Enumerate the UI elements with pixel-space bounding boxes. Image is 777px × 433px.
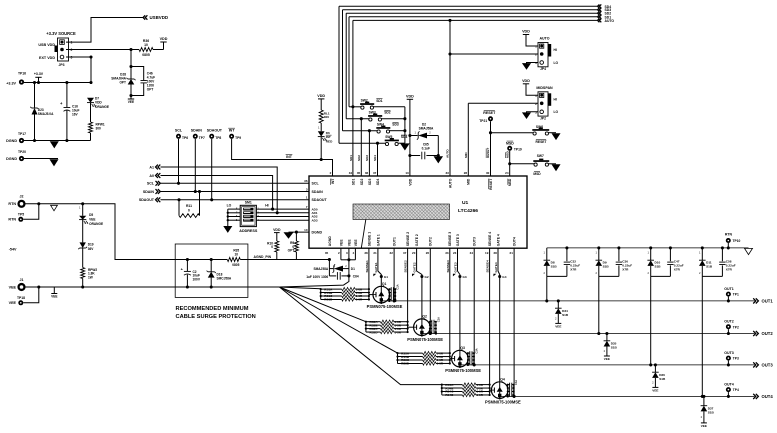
- capacitor C2D: [430, 331, 432, 333]
- svg-text:TP4: TP4: [733, 388, 739, 392]
- capacitor C2C: [430, 328, 432, 330]
- svg-text:TP10: TP10: [733, 239, 741, 243]
- diode D6 INT RED: [320, 123, 322, 131]
- node SD4: [598, 4, 602, 8]
- capacitor C2B: [430, 324, 432, 326]
- svg-text:TP3: TP3: [733, 357, 739, 361]
- svg-text:INT: INT: [286, 155, 293, 159]
- wire AUTO jumper to pin: [450, 53, 538, 55]
- svg-text:AGND: AGND: [328, 236, 332, 247]
- svg-text:SD2: SD2: [357, 155, 361, 161]
- wire GATE4 net: [498, 248, 500, 382]
- node OUT3: [753, 362, 758, 367]
- svg-text:OUT3: OUT3: [724, 351, 734, 355]
- wire source to OUT4 row: [499, 397, 501, 399]
- svg-text:VEE: VEE: [128, 100, 134, 104]
- capacitor C2: [186, 258, 189, 261]
- svg-text:EXT VDD: EXT VDD: [39, 56, 55, 60]
- svg-text:SW3: SW3: [369, 110, 376, 114]
- diode D1 SMAJ58A: [329, 268, 333, 270]
- wire source to OUT2 row: [421, 334, 423, 336]
- ground (TP20): [50, 160, 58, 166]
- chassis arrow (J2): [51, 205, 58, 211]
- capacitor C2A: [430, 321, 432, 323]
- svg-text:37: 37: [373, 171, 377, 175]
- svg-text:AUTO: AUTO: [446, 149, 450, 158]
- switch SW2 SD1: [349, 106, 361, 108]
- svg-text:RS4D: RS4D: [445, 393, 454, 397]
- wire OUT3 row: [460, 364, 755, 366]
- svg-text:OUT4: OUT4: [513, 237, 517, 246]
- wire VEE pins tie: [340, 248, 342, 260]
- svg-text:VDD: VDD: [406, 95, 414, 99]
- svg-text:VDD: VDD: [273, 228, 281, 232]
- svg-text:C1A: C1A: [396, 284, 400, 289]
- wire bus SD2: [346, 12, 597, 14]
- wire bus SD1: [349, 16, 597, 18]
- svg-text:0: 0: [271, 245, 273, 249]
- capacitor C4B: [508, 387, 510, 389]
- wire SDAIN: [161, 191, 310, 193]
- svg-text:MIDSPAN: MIDSPAN: [536, 86, 553, 90]
- svg-text:C4A: C4A: [514, 380, 518, 385]
- diode D34 S1B: [557, 299, 560, 302]
- svg-text:36: 36: [304, 179, 308, 183]
- svg-text:AUTO: AUTO: [448, 178, 452, 188]
- svg-text:SENSE4: SENSE4: [486, 260, 490, 272]
- svg-text:SMAJ58A: SMAJ58A: [313, 267, 328, 271]
- svg-text:S1B: S1B: [708, 410, 715, 414]
- svg-text:J2: J2: [20, 194, 24, 198]
- svg-text:G1: G1: [384, 275, 388, 279]
- svg-text:+3.3V: +3.3V: [6, 81, 16, 85]
- svg-text:SDAOUT: SDAOUT: [139, 198, 155, 202]
- svg-text:10: 10: [304, 228, 308, 232]
- wire SENSE3 to IC: [449, 248, 451, 363]
- capacitor C64: [329, 275, 336, 277]
- svg-text:1W: 1W: [88, 275, 93, 279]
- svg-text:OPT: OPT: [288, 248, 295, 252]
- svg-text:0.1uF: 0.1uF: [422, 147, 430, 151]
- svg-text:RTN: RTN: [8, 202, 16, 206]
- svg-text:TP18: TP18: [17, 296, 25, 300]
- wire cap bus port4: [507, 385, 509, 397]
- surge protection box: [175, 244, 248, 297]
- svg-text:SENSE 1: SENSE 1: [367, 232, 371, 246]
- svg-text:38: 38: [364, 251, 368, 255]
- diode D18 SMCJ58A: [210, 258, 213, 261]
- svg-text:X7R: X7R: [674, 268, 681, 272]
- capacitor C1B: [389, 292, 391, 294]
- wire bus SD4: [339, 5, 597, 7]
- transistor Q4 PSMN075-100MSE: [491, 382, 508, 399]
- svg-text:+3.3V: +3.3V: [34, 72, 44, 76]
- connector JP3: [58, 38, 69, 61]
- wire drain stub: [408, 326, 414, 328]
- capacitor C3C: [468, 359, 470, 361]
- wire D9 to OUT2 row: [598, 276, 600, 333]
- switch SW4 SD3: [343, 130, 378, 132]
- svg-text:1uF 100V 1306: 1uF 100V 1306: [306, 275, 328, 279]
- resistor RPW2: [81, 268, 85, 279]
- svg-text:SD4: SD4: [373, 155, 377, 161]
- wire VEE fan to port1: [279, 287, 320, 289]
- svg-text:-54V: -54V: [9, 248, 17, 252]
- svg-text:SD3: SD3: [392, 123, 399, 127]
- svg-text:AD3: AD3: [312, 218, 318, 222]
- svg-text:USB VDD: USB VDD: [38, 43, 55, 47]
- svg-text:OUT3: OUT3: [473, 237, 477, 246]
- ground (C65): [434, 157, 442, 163]
- svg-text:S1B: S1B: [603, 264, 610, 268]
- svg-text:AGND_PIN: AGND_PIN: [254, 255, 272, 259]
- wire SD4 drop to IC: [376, 142, 379, 145]
- power VEE symbol (rail): [53, 287, 55, 294]
- svg-text:TP21: TP21: [479, 119, 487, 123]
- svg-text:RS3D: RS3D: [401, 362, 410, 366]
- wire JP3 pin3 down: [66, 57, 91, 83]
- svg-text:Q1: Q1: [382, 282, 387, 286]
- svg-text:VEE: VEE: [354, 239, 358, 247]
- node OUT2: [753, 331, 758, 336]
- svg-text:33: 33: [445, 171, 449, 175]
- svg-text:TP19: TP19: [514, 148, 522, 152]
- wire AUTO pin drop: [449, 20, 451, 176]
- resistor RS1C 0.25: [321, 295, 342, 297]
- svg-text:AUTO: AUTO: [605, 19, 615, 23]
- wire VDD to IC: [409, 99, 411, 176]
- svg-text:35: 35: [357, 171, 361, 175]
- diode D28 SMAJ64A OPT: [130, 50, 132, 80]
- svg-text:OUT2: OUT2: [429, 237, 433, 246]
- wire OUT4 row: [500, 395, 755, 397]
- svg-text:+3.3V SOURCE: +3.3V SOURCE: [46, 31, 76, 36]
- wire A0: [161, 176, 273, 210]
- svg-text:MID: MID: [467, 178, 471, 185]
- wire drain stub: [490, 389, 492, 391]
- wire SD3 drop to IC: [368, 129, 371, 132]
- wire A1: [161, 167, 278, 213]
- svg-text:MSD: MSD: [508, 178, 512, 186]
- wire JP3 pin2 to R36: [66, 49, 139, 51]
- svg-text:VDD: VDD: [160, 37, 168, 41]
- wire cap bus port2: [429, 322, 431, 334]
- wire OUT2 pin to row: [429, 248, 431, 333]
- svg-text:SW5: SW5: [385, 135, 392, 139]
- diode D36 S1B: [654, 363, 657, 366]
- resistor RS4D 0.25: [442, 394, 463, 396]
- svg-text:16V: 16V: [72, 112, 79, 116]
- svg-text:OUT4: OUT4: [724, 383, 734, 387]
- power VEE (D28): [128, 98, 134, 100]
- node SD1: [598, 15, 602, 19]
- svg-text:HI: HI: [554, 48, 557, 52]
- capacitor C3D: [468, 362, 470, 364]
- svg-text:TP8: TP8: [215, 136, 221, 140]
- switch SW7 MSD: [510, 163, 534, 165]
- svg-text:SD4: SD4: [401, 135, 408, 139]
- svg-text:Q3: Q3: [460, 346, 465, 350]
- capacitor C58 0.22uF: [721, 246, 724, 249]
- svg-text:U1: U1: [462, 200, 469, 206]
- testpoint TP16: [19, 79, 24, 84]
- power VEE (D37): [701, 422, 707, 424]
- svg-text:RESET: RESET: [483, 111, 496, 115]
- svg-text:10: 10: [235, 252, 239, 256]
- wire MIDSPAN jumper to MID pin: [468, 102, 538, 104]
- svg-text:SM1: SM1: [245, 201, 252, 205]
- svg-text:SW6: SW6: [536, 125, 543, 129]
- svg-text:0805: 0805: [232, 263, 239, 267]
- wire AUTO drop to IC: [352, 20, 354, 176]
- svg-text:TP5: TP5: [18, 212, 24, 216]
- svg-text:23: 23: [453, 251, 457, 255]
- node SD3: [598, 8, 602, 12]
- svg-text:PSMN075-100MSE: PSMN075-100MSE: [367, 304, 403, 309]
- power VEE (D36): [652, 386, 658, 388]
- svg-text:SDAIN: SDAIN: [191, 129, 203, 133]
- svg-text:1-0R: 1-0R: [394, 330, 401, 334]
- svg-text:SW4: SW4: [377, 122, 384, 126]
- resistor RPW1 300: [89, 122, 93, 133]
- wire cap bus port1: [388, 289, 390, 301]
- svg-text:LO: LO: [554, 110, 559, 114]
- svg-text:SD3: SD3: [368, 178, 372, 185]
- wire OUT4 pin to row: [513, 248, 515, 396]
- svg-text:PSMN075-100MSE: PSMN075-100MSE: [407, 337, 443, 342]
- svg-text:OUT1: OUT1: [762, 299, 774, 304]
- capacitor C36 0.22uF: [617, 246, 620, 249]
- svg-text:TP1: TP1: [733, 293, 739, 297]
- svg-text:Q4: Q4: [500, 377, 505, 381]
- svg-text:SDAOUT: SDAOUT: [312, 198, 328, 202]
- svg-text:SD1: SD1: [352, 178, 356, 185]
- svg-text:SD2: SD2: [360, 178, 364, 185]
- resistor RS2C 0.25: [366, 328, 381, 330]
- svg-text:RED: RED: [326, 139, 333, 143]
- wire SD2 drop to IC: [360, 117, 363, 120]
- svg-text:GATE 1: GATE 1: [376, 234, 380, 246]
- svg-text:G3: G3: [463, 275, 467, 279]
- svg-text:RTN: RTN: [8, 218, 16, 222]
- capacitor C47 0.22uF: [669, 246, 672, 249]
- capacitor C1D: [389, 298, 391, 300]
- svg-text:RS1D: RS1D: [324, 298, 333, 302]
- diode D7 VDD ORANGE: [87, 98, 94, 103]
- svg-text:RTN: RTN: [725, 232, 733, 236]
- svg-text:SMAJ58A: SMAJ58A: [419, 127, 434, 131]
- svg-text:C3A: C3A: [474, 348, 478, 353]
- svg-text:A1: A1: [149, 165, 154, 169]
- wire JP2 pin3 to ground: [527, 112, 539, 113]
- connector JP4 AUTO: [523, 34, 529, 36]
- svg-text:36V: 36V: [88, 247, 95, 251]
- svg-text:DGND: DGND: [312, 230, 323, 234]
- svg-text:SW7: SW7: [537, 154, 544, 158]
- capacitor C1A: [389, 288, 391, 290]
- wire SD2 drop: [345, 13, 347, 119]
- resistor RS4B 0.25: [442, 387, 463, 389]
- svg-text:TP17: TP17: [18, 132, 26, 136]
- power VEE (D35): [604, 355, 610, 357]
- diode D35 S1B: [605, 332, 608, 335]
- svg-text:300: 300: [324, 115, 329, 119]
- node USBVDD: [143, 15, 147, 19]
- wire bus SD3: [343, 9, 598, 11]
- svg-text:SENSE 4: SENSE 4: [488, 232, 492, 246]
- testpoint TP17: [19, 138, 24, 143]
- svg-text:INT: INT: [229, 129, 236, 133]
- svg-text:34: 34: [470, 251, 474, 255]
- svg-text:OPT: OPT: [119, 81, 126, 85]
- svg-text:DGND: DGND: [6, 157, 17, 161]
- svg-text:MSD: MSD: [505, 150, 509, 158]
- op-amp U1 LTC4266 body: [309, 176, 527, 248]
- wire VEE fan to port4: [279, 287, 441, 385]
- svg-text:SMCJ58A: SMCJ58A: [217, 277, 232, 281]
- capacitor C65: [410, 155, 420, 157]
- svg-text:JP3: JP3: [59, 63, 65, 67]
- wire VEE fan to port3: [279, 287, 397, 353]
- svg-text:SDAOUT: SDAOUT: [207, 129, 223, 133]
- svg-text:TP7: TP7: [199, 136, 205, 140]
- svg-text:SCL: SCL: [175, 129, 183, 133]
- resistor RS4A 0.25: [442, 384, 463, 386]
- wire OUT1 row: [381, 300, 754, 302]
- svg-text:J1: J1: [20, 278, 24, 282]
- wire SENSE1 to IC: [368, 248, 370, 299]
- svg-text:21: 21: [510, 251, 514, 255]
- svg-text:OUT2: OUT2: [762, 331, 774, 336]
- resistor RS3B 0.25: [398, 356, 423, 358]
- wire switch common: [404, 107, 406, 143]
- svg-text:VEE: VEE: [51, 295, 57, 299]
- svg-text:DGND: DGND: [6, 139, 17, 143]
- resistor R11: [178, 200, 180, 216]
- svg-text:VEE: VEE: [339, 239, 343, 247]
- wire SDAOUT: [161, 199, 310, 201]
- wire drain stub: [369, 294, 373, 296]
- resistor RS2A 0.25: [366, 321, 381, 323]
- wire AGND to D1: [328, 258, 331, 261]
- wire SD4 drop: [338, 6, 340, 143]
- resistor RS1A 0.25: [321, 288, 342, 290]
- svg-text:RESET: RESET: [486, 148, 490, 158]
- wire port2 left bus: [365, 322, 367, 332]
- svg-text:ADDRESS: ADDRESS: [239, 229, 258, 233]
- svg-text:OUT3: OUT3: [762, 363, 774, 368]
- resistor RS3A 0.25: [398, 352, 423, 354]
- svg-text:ORANGE: ORANGE: [89, 222, 103, 226]
- svg-text:13: 13: [405, 171, 409, 175]
- wire SD1 drop: [348, 17, 350, 107]
- connector JP2 MIDSPAN: [523, 83, 529, 85]
- wire GATE1 net: [378, 248, 381, 286]
- svg-text:10: 10: [144, 43, 148, 47]
- wire VEE fan to D1/C64 node: [279, 276, 349, 287]
- svg-text:SD1: SD1: [349, 155, 353, 161]
- ground (DGND pin): [284, 233, 292, 239]
- svg-text:D5: D5: [89, 213, 93, 217]
- svg-text:GATE4: GATE4: [494, 262, 498, 272]
- wire port1 left bus: [320, 289, 322, 299]
- node OUT4: [753, 394, 758, 399]
- svg-text:SW2: SW2: [361, 99, 368, 103]
- svg-text:X7R: X7R: [570, 268, 577, 272]
- svg-text:VEE: VEE: [89, 218, 95, 222]
- diode D37 S1B: [702, 395, 705, 398]
- svg-text:RECOMMENDED MINIMUM: RECOMMENDED MINIMUM: [176, 306, 249, 312]
- svg-text:S1B: S1B: [655, 264, 662, 268]
- diode D19 36V: [80, 242, 86, 248]
- svg-text:TP9: TP9: [235, 136, 241, 140]
- svg-text:VEE: VEE: [555, 325, 561, 329]
- svg-text:TP20: TP20: [18, 150, 26, 154]
- svg-text:SENSE1: SENSE1: [365, 260, 369, 272]
- diode D8 S1B: [546, 248, 548, 260]
- diode D10 S1B: [649, 246, 652, 249]
- svg-text:0805: 0805: [142, 53, 150, 57]
- wire port4 left bus: [441, 385, 443, 395]
- svg-text:G2: G2: [425, 275, 429, 279]
- wire bus AUTO: [353, 19, 597, 21]
- diode D9 S1B: [597, 246, 600, 249]
- svg-text:SD2: SD2: [384, 111, 391, 115]
- capacitor C16: [65, 81, 68, 84]
- svg-text:VEE: VEE: [347, 239, 351, 247]
- resistor R9 OPT: [295, 232, 297, 241]
- svg-text:RESET: RESET: [536, 140, 547, 144]
- resistor R35: [227, 258, 240, 262]
- svg-text:RESET: RESET: [489, 178, 493, 190]
- svg-text:OUT2: OUT2: [724, 320, 734, 324]
- wire SENSE2 to IC: [407, 248, 409, 332]
- svg-text:28: 28: [493, 251, 497, 255]
- capacitor C4D: [508, 394, 510, 396]
- svg-text:34: 34: [349, 171, 353, 175]
- diode D23 SMAJ5.0A: [33, 81, 36, 84]
- svg-text:USBVDD: USBVDD: [150, 15, 169, 20]
- wire cap bus port3: [467, 353, 469, 365]
- svg-text:SENSE2: SENSE2: [404, 260, 408, 272]
- svg-text:ORANGE: ORANGE: [95, 105, 109, 109]
- svg-text:OUT1: OUT1: [724, 287, 734, 291]
- svg-text:SD3: SD3: [365, 155, 369, 161]
- svg-text:36: 36: [365, 171, 369, 175]
- svg-text:Q2: Q2: [422, 314, 427, 318]
- resistor RL1 300: [318, 98, 324, 100]
- wire DGND pin: [289, 231, 310, 233]
- node SD2: [598, 11, 602, 15]
- svg-text:100V: 100V: [193, 277, 201, 281]
- ground (DGND rail): [51, 142, 59, 148]
- svg-text:LO: LO: [227, 204, 232, 208]
- svg-text:300: 300: [96, 126, 102, 130]
- svg-text:VDD: VDD: [408, 178, 412, 186]
- capacitor C4A: [508, 384, 510, 386]
- wire JP4 pin3 to ground: [527, 63, 539, 64]
- svg-text:GATE2: GATE2: [413, 262, 417, 272]
- svg-text:HI: HI: [265, 204, 268, 208]
- svg-text:HI: HI: [554, 98, 557, 102]
- svg-text:D1: D1: [351, 267, 355, 271]
- svg-text:VDD: VDD: [522, 79, 530, 83]
- wire source to OUT3 row: [459, 366, 461, 368]
- svg-text:GATE 4: GATE 4: [496, 234, 500, 246]
- wire OUT3 pin to row: [473, 248, 475, 365]
- capacitor C3B: [468, 356, 470, 358]
- svg-text:SMAJ5.0A: SMAJ5.0A: [38, 112, 54, 116]
